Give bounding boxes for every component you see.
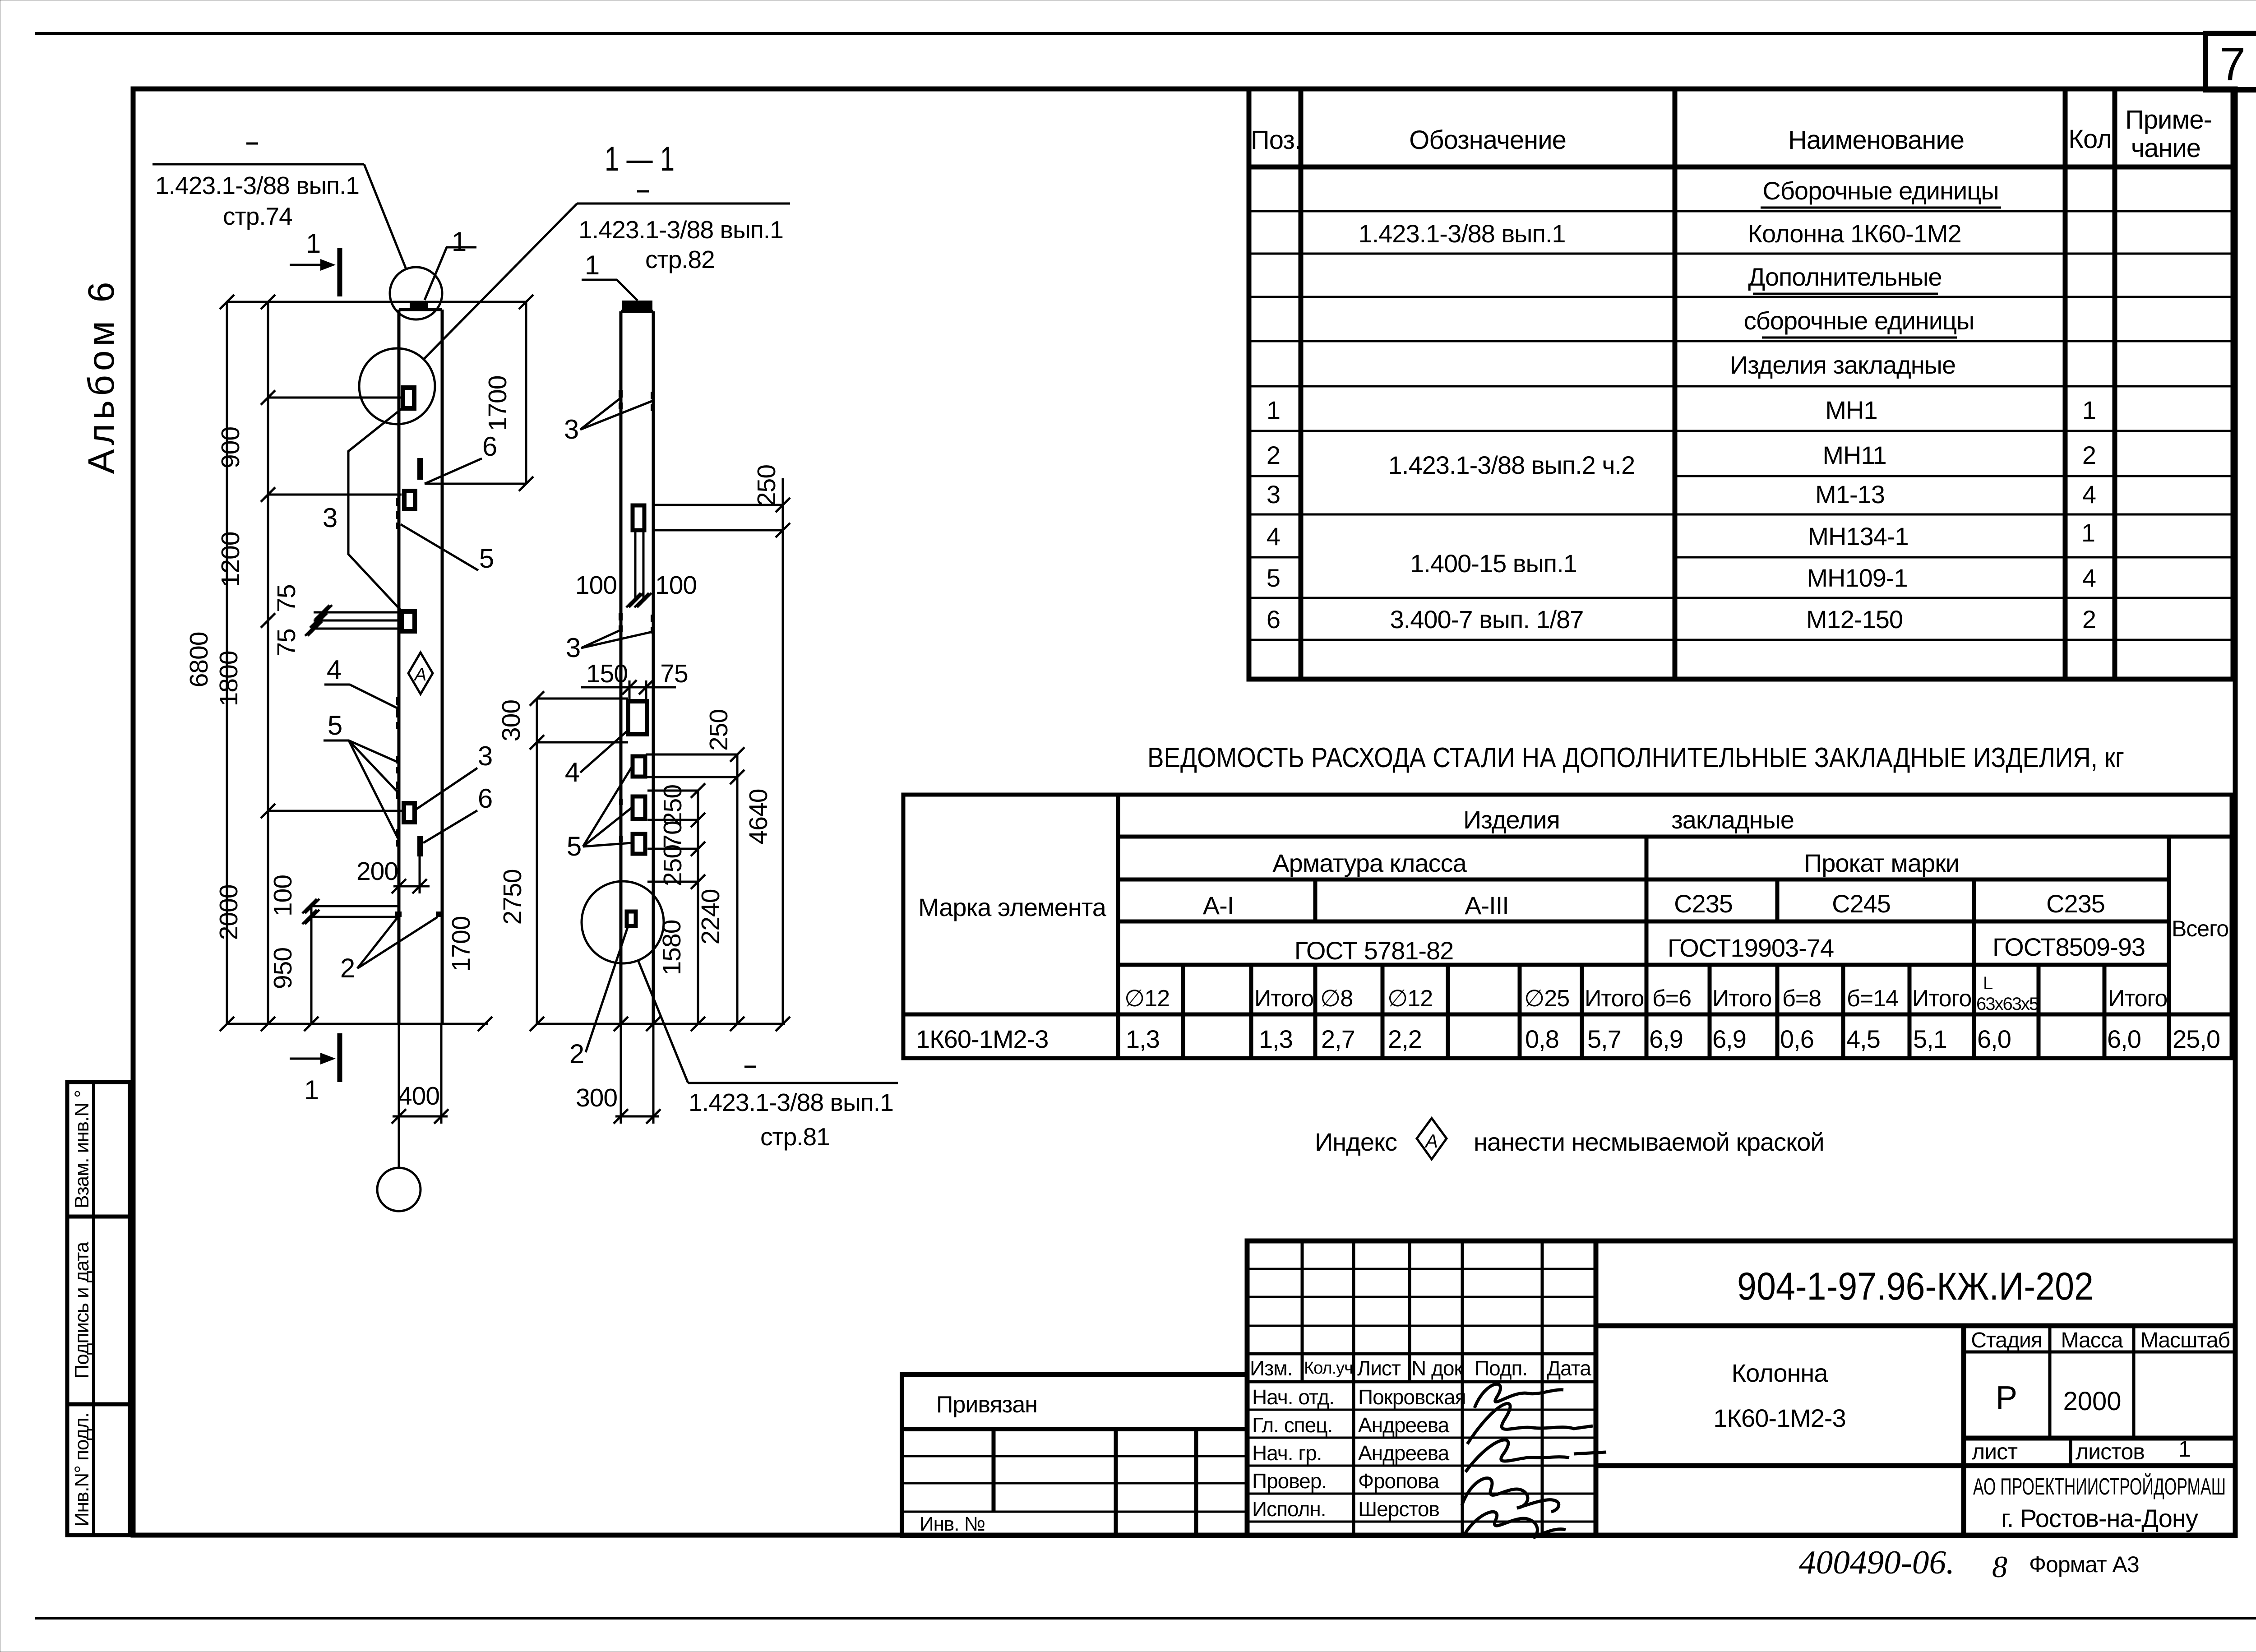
svg-text:Итого: Итого <box>1254 986 1313 1012</box>
svg-text:2: 2 <box>569 1039 584 1069</box>
svg-text:2000: 2000 <box>2063 1387 2121 1416</box>
svg-text:5: 5 <box>1267 564 1280 592</box>
svg-text:Стадия: Стадия <box>1971 1328 2042 1352</box>
svg-text:6: 6 <box>482 431 497 462</box>
svg-text:закладные: закладные <box>1671 805 1794 834</box>
svg-text:Масса: Масса <box>2061 1328 2123 1352</box>
svg-text:1: 1 <box>304 1075 319 1105</box>
plate lower <box>404 803 415 822</box>
svg-text:Инв.N° подл.: Инв.N° подл. <box>71 1413 93 1527</box>
svg-text:4: 4 <box>1267 522 1280 551</box>
svg-text:1.423.1-3/88 вып.2 ч.2: 1.423.1-3/88 вып.2 ч.2 <box>1388 451 1635 479</box>
svg-text:Нач. отд.: Нач. отд. <box>1252 1385 1334 1409</box>
svg-text:N док: N док <box>1411 1356 1463 1380</box>
svg-text:2000: 2000 <box>214 885 243 940</box>
svg-text:1: 1 <box>2178 1436 2191 1462</box>
svg-text:1.423.1-3/88 вып.1: 1.423.1-3/88 вып.1 <box>1358 219 1565 248</box>
svg-text:1.423.1-3/88 вып.1: 1.423.1-3/88 вып.1 <box>155 171 359 199</box>
left attachment boxes column <box>67 1082 130 1535</box>
edge marks pos3 middle <box>619 613 655 634</box>
svg-text:3.400-7 вып. 1/87: 3.400-7 вып. 1/87 <box>1390 605 1584 634</box>
svg-text:Дата: Дата <box>1547 1356 1591 1380</box>
svg-text:6: 6 <box>1267 605 1280 634</box>
svg-text:б=14: б=14 <box>1847 986 1898 1012</box>
plate MH134-1 <box>628 701 647 734</box>
svg-text:250: 250 <box>752 465 781 506</box>
svg-text:Провер.: Провер. <box>1252 1469 1327 1493</box>
plate M1-13 at rebar level <box>402 611 415 631</box>
svg-text:МН134-1: МН134-1 <box>1808 522 1908 551</box>
svg-text:Шерстов: Шерстов <box>1358 1497 1439 1521</box>
svg-text:Итого: Итого <box>1912 986 1971 1012</box>
dimension lines right view <box>537 478 785 1124</box>
svg-text:100: 100 <box>268 875 297 916</box>
spec table header texts <box>1251 105 2212 163</box>
svg-text:0,6: 0,6 <box>1780 1025 1814 1053</box>
svg-text:∅12: ∅12 <box>1387 986 1433 1012</box>
plate MH11 middle <box>404 491 415 509</box>
svg-text:С235: С235 <box>1674 889 1733 918</box>
svg-text:∅25: ∅25 <box>1524 986 1569 1012</box>
svg-text:М12-150: М12-150 <box>1806 605 1903 634</box>
top cap plate MH1 section <box>622 301 652 310</box>
svg-text:70: 70 <box>658 821 687 848</box>
svg-text:150: 150 <box>586 659 628 688</box>
svg-text:1580: 1580 <box>657 920 686 976</box>
svg-text:400: 400 <box>398 1082 439 1111</box>
svg-text:Р: Р <box>1996 1380 2017 1416</box>
svg-text:Андреева: Андреева <box>1358 1441 1450 1465</box>
svg-text:6800: 6800 <box>185 632 213 688</box>
dimension lines left view <box>227 302 526 1168</box>
svg-text:2: 2 <box>2082 605 2096 634</box>
detail circle pos2 bottom <box>582 881 664 963</box>
plates MH109-1 <box>633 756 645 777</box>
svg-text:5,7: 5,7 <box>1587 1025 1621 1053</box>
spec table rows <box>1267 176 2096 634</box>
attachment box Privyazan <box>902 1374 1247 1536</box>
svg-text:3: 3 <box>566 633 580 663</box>
svg-text:7: 7 <box>2219 38 2246 91</box>
detail circle top <box>390 267 442 319</box>
dim 150 75 <box>581 686 676 689</box>
svg-text:3: 3 <box>478 741 492 771</box>
svg-text:1: 1 <box>2081 518 2095 547</box>
svg-text:950: 950 <box>268 948 297 989</box>
svg-text:1.423.1-3/88 вып.1: 1.423.1-3/88 вып.1 <box>689 1088 893 1116</box>
svg-text:2: 2 <box>340 953 355 983</box>
quality index diamond on column <box>408 652 433 694</box>
specification table top right <box>1249 89 2233 679</box>
svg-text:904-1-97.96-КЖ.И-202: 904-1-97.96-КЖ.И-202 <box>1737 1265 2094 1308</box>
svg-text:МН11: МН11 <box>1822 441 1886 469</box>
svg-text:63х63х5: 63х63х5 <box>1976 994 2039 1014</box>
svg-text:Изделия: Изделия <box>1463 805 1560 834</box>
svg-text:Покровская: Покровская <box>1358 1385 1466 1409</box>
svg-text:Андреева: Андреева <box>1358 1413 1450 1437</box>
svg-text:Альбом 6: Альбом 6 <box>81 278 122 474</box>
svg-text:МН109-1: МН109-1 <box>1807 564 1907 592</box>
svg-text:5: 5 <box>328 710 342 740</box>
svg-text:300: 300 <box>497 700 526 741</box>
reference note str.81 <box>638 960 688 1083</box>
svg-text:1: 1 <box>585 250 599 280</box>
svg-text:Изделия закладные: Изделия закладные <box>1730 351 1956 379</box>
svg-text:300: 300 <box>576 1083 617 1112</box>
svg-text:100: 100 <box>575 571 617 600</box>
svg-text:Прокат марки: Прокат марки <box>1804 849 1959 877</box>
svg-text:2,7: 2,7 <box>1321 1025 1355 1053</box>
svg-text:Фропова: Фропова <box>1358 1469 1440 1493</box>
svg-text:Поз.: Поз. <box>1251 125 1301 155</box>
svg-text:А-III: А-III <box>1465 891 1509 920</box>
svg-text:4640: 4640 <box>744 789 773 845</box>
svg-text:3: 3 <box>564 414 578 444</box>
svg-text:1: 1 <box>306 228 320 259</box>
dim labels right view <box>497 465 781 1112</box>
svg-text:6,0: 6,0 <box>2107 1025 2141 1053</box>
reference note str.74 <box>153 163 364 166</box>
svg-text:Марка элемента: Марка элемента <box>918 893 1107 921</box>
column outline left view <box>399 310 442 1024</box>
svg-text:75: 75 <box>660 659 688 688</box>
svg-text:ГОСТ 5781-82: ГОСТ 5781-82 <box>1294 936 1454 965</box>
svg-text:1700: 1700 <box>447 916 476 972</box>
svg-text:6,0: 6,0 <box>1977 1025 2011 1053</box>
svg-text:МН1: МН1 <box>1825 396 1877 424</box>
svg-text:А: А <box>414 665 427 685</box>
svg-text:ГОСТ19903-74: ГОСТ19903-74 <box>1668 934 1834 962</box>
svg-text:Итого: Итого <box>1712 986 1771 1012</box>
svg-text:900: 900 <box>216 427 245 468</box>
svg-text:Кол: Кол <box>2068 125 2112 154</box>
sheet number box 7 <box>2205 33 2256 90</box>
column outline section view <box>621 311 653 1024</box>
anchor M12-150 upper tick <box>417 458 423 480</box>
svg-text:3: 3 <box>323 503 337 533</box>
svg-text:1К60-1М2-3: 1К60-1М2-3 <box>916 1025 1048 1053</box>
dim labels left view <box>185 376 512 1111</box>
svg-text:листов: листов <box>2076 1439 2145 1464</box>
svg-text:Изм.: Изм. <box>1250 1356 1293 1380</box>
svg-text:Арматура класса: Арматура класса <box>1272 849 1467 877</box>
svg-text:5: 5 <box>567 831 581 861</box>
svg-text:2750: 2750 <box>498 870 527 925</box>
sign-off grid <box>1247 1241 1596 1536</box>
svg-text:лист: лист <box>1972 1439 2018 1464</box>
svg-text:б=8: б=8 <box>1782 986 1821 1012</box>
detail circle middle <box>359 348 435 424</box>
svg-text:4: 4 <box>2082 564 2096 592</box>
edge marks pos3 upper <box>619 390 655 411</box>
plate MH11 section <box>633 505 644 530</box>
svg-text:Нач. гр.: Нач. гр. <box>1252 1441 1322 1465</box>
svg-text:6: 6 <box>478 783 492 814</box>
underlines in spec table <box>1761 207 2001 209</box>
svg-text:4,5: 4,5 <box>1846 1025 1880 1053</box>
svg-text:1800: 1800 <box>214 651 243 707</box>
svg-text:1.400-15 вып.1: 1.400-15 вып.1 <box>1410 549 1577 578</box>
svg-text:∅12: ∅12 <box>1124 986 1170 1012</box>
svg-text:1.423.1-3/88 вып.1: 1.423.1-3/88 вып.1 <box>578 216 783 244</box>
svg-text:Взам. инв.N °: Взам. инв.N ° <box>71 1090 93 1208</box>
svg-text:4: 4 <box>2082 480 2096 509</box>
svg-text:Итого: Итого <box>1585 986 1644 1012</box>
svg-text:0,8: 0,8 <box>1525 1025 1559 1053</box>
svg-text:Масштаб: Масштаб <box>2140 1328 2230 1352</box>
svg-text:4: 4 <box>327 655 341 685</box>
svg-text:100: 100 <box>655 571 697 600</box>
svg-text:нанести несмываемой краской: нанести несмываемой краской <box>1474 1128 1824 1156</box>
steel consumption table grid <box>903 795 2232 1058</box>
svg-text:Гл. спец.: Гл. спец. <box>1252 1413 1332 1437</box>
svg-text:Колонна 1К60-1М2: Колонна 1К60-1М2 <box>1747 219 1961 248</box>
svg-text:ГОСТ8509-93: ГОСТ8509-93 <box>1992 933 2145 961</box>
svg-text:L: L <box>1983 973 1993 993</box>
svg-text:200: 200 <box>356 857 398 886</box>
anchor M12-150 lower tick <box>417 836 423 856</box>
svg-text:6,9: 6,9 <box>1712 1025 1746 1053</box>
dimension ticks left view <box>220 295 234 309</box>
svg-text:1,3: 1,3 <box>1259 1025 1293 1053</box>
svg-text:Подпись и дата: Подпись и дата <box>71 1241 93 1379</box>
svg-text:1200: 1200 <box>216 532 245 588</box>
svg-text:1К60-1М2-3: 1К60-1М2-3 <box>1713 1404 1845 1432</box>
svg-text:Лист: Лист <box>1357 1356 1401 1380</box>
svg-text:250: 250 <box>658 845 687 886</box>
svg-text:1: 1 <box>452 227 466 257</box>
rebar tails below MH11 <box>634 530 637 600</box>
svg-text:25,0: 25,0 <box>2173 1025 2220 1053</box>
svg-text:1,3: 1,3 <box>1126 1025 1160 1053</box>
svg-text:Кол.уч: Кол.уч <box>1304 1359 1353 1378</box>
svg-text:1: 1 <box>2082 396 2096 424</box>
sign-off texts <box>1250 1356 1591 1521</box>
svg-text:Обозначение: Обозначение <box>1409 125 1566 155</box>
axis circle bottom <box>377 1168 421 1211</box>
section mark 1 top <box>337 248 342 296</box>
svg-text:2: 2 <box>2082 441 2096 469</box>
svg-text:6,9: 6,9 <box>1649 1025 1683 1053</box>
svg-text:Привязан: Привязан <box>936 1392 1037 1418</box>
svg-text:1: 1 <box>1267 396 1280 424</box>
svg-text:Исполн.: Исполн. <box>1252 1497 1326 1521</box>
svg-text:Формат А3: Формат А3 <box>2029 1552 2139 1577</box>
svg-text:Дополнительные: Дополнительные <box>1748 263 1942 291</box>
svg-text:75: 75 <box>272 629 301 656</box>
sheet top thin line <box>35 32 2205 35</box>
svg-text:75: 75 <box>272 584 301 612</box>
svg-text:2,2: 2,2 <box>1388 1025 1422 1053</box>
rebar outlet lines <box>314 612 402 629</box>
svg-text:1 — 1: 1 — 1 <box>605 140 675 178</box>
svg-text:250: 250 <box>704 709 733 751</box>
svg-text:стр.82: стр.82 <box>645 245 715 273</box>
svg-text:Итого: Итого <box>2108 986 2167 1012</box>
svg-text:С245: С245 <box>1832 889 1891 918</box>
svg-text:чание: чание <box>2131 134 2201 163</box>
signatures <box>1462 1384 1606 1538</box>
svg-text:б=6: б=6 <box>1652 986 1691 1012</box>
svg-text:∅8: ∅8 <box>1320 986 1353 1012</box>
svg-text:АО ПРОЕКТНИИСТРОЙДОРМАШ: АО ПРОЕКТНИИСТРОЙДОРМАШ <box>1973 1473 2226 1500</box>
svg-text:стр.81: стр.81 <box>760 1123 830 1151</box>
svg-text:Сборочные единицы: Сборочные единицы <box>1762 176 1998 205</box>
svg-text:М1-13: М1-13 <box>1815 480 1885 509</box>
ticks right view <box>530 691 544 706</box>
svg-text:5: 5 <box>479 543 494 574</box>
svg-text:Всего: Всего <box>2172 916 2228 941</box>
svg-text:2240: 2240 <box>696 889 725 945</box>
svg-text:А: А <box>1424 1130 1438 1152</box>
weld dashes on left edge <box>396 498 400 847</box>
svg-text:250: 250 <box>658 785 687 826</box>
svg-text:ВЕДОМОСТЬ РАСХОДА СТАЛИ НА ДОП: ВЕДОМОСТЬ РАСХОДА СТАЛИ НА ДОПОЛНИТЕЛЬНЫ… <box>1147 742 2124 773</box>
svg-text:Индекс: Индекс <box>1315 1128 1397 1156</box>
svg-text:Подп.: Подп. <box>1475 1356 1527 1380</box>
plate M1-13 inside middle circle <box>403 388 414 408</box>
sheet bottom thin line <box>35 1617 2256 1620</box>
svg-text:Колонна: Колонна <box>1732 1359 1829 1387</box>
title block stamp <box>1247 1241 2235 1536</box>
pos2 edge ticks bottom <box>395 912 402 917</box>
section mark 1 bottom <box>337 1033 342 1082</box>
svg-text:стр.74: стр.74 <box>223 202 292 230</box>
svg-text:4: 4 <box>565 757 579 787</box>
svg-text:Приме-: Приме- <box>2125 105 2212 134</box>
svg-text:5,1: 5,1 <box>1913 1025 1947 1053</box>
svg-text:А-I: А-I <box>1203 891 1234 920</box>
svg-text:2: 2 <box>1267 441 1280 469</box>
svg-text:400490-06.: 400490-06. <box>1799 1544 1955 1581</box>
svg-text:г. Ростов-на-Дону: г. Ростов-на-Дону <box>2001 1504 2198 1532</box>
plate MH1 at column top <box>410 301 428 310</box>
svg-text:С235: С235 <box>2046 889 2105 918</box>
steel table texts <box>918 805 2228 965</box>
svg-text:1700: 1700 <box>483 376 512 431</box>
svg-text:Наименование: Наименование <box>1788 125 1964 155</box>
svg-text:8: 8 <box>1992 1550 2007 1584</box>
svg-text:сборочные единицы: сборочные единицы <box>1744 306 1974 335</box>
reference note str.82 <box>577 203 790 205</box>
index diamond symbol A <box>1417 1118 1447 1159</box>
svg-text:Инв. №: Инв. № <box>920 1513 985 1535</box>
svg-text:3: 3 <box>1267 480 1280 509</box>
